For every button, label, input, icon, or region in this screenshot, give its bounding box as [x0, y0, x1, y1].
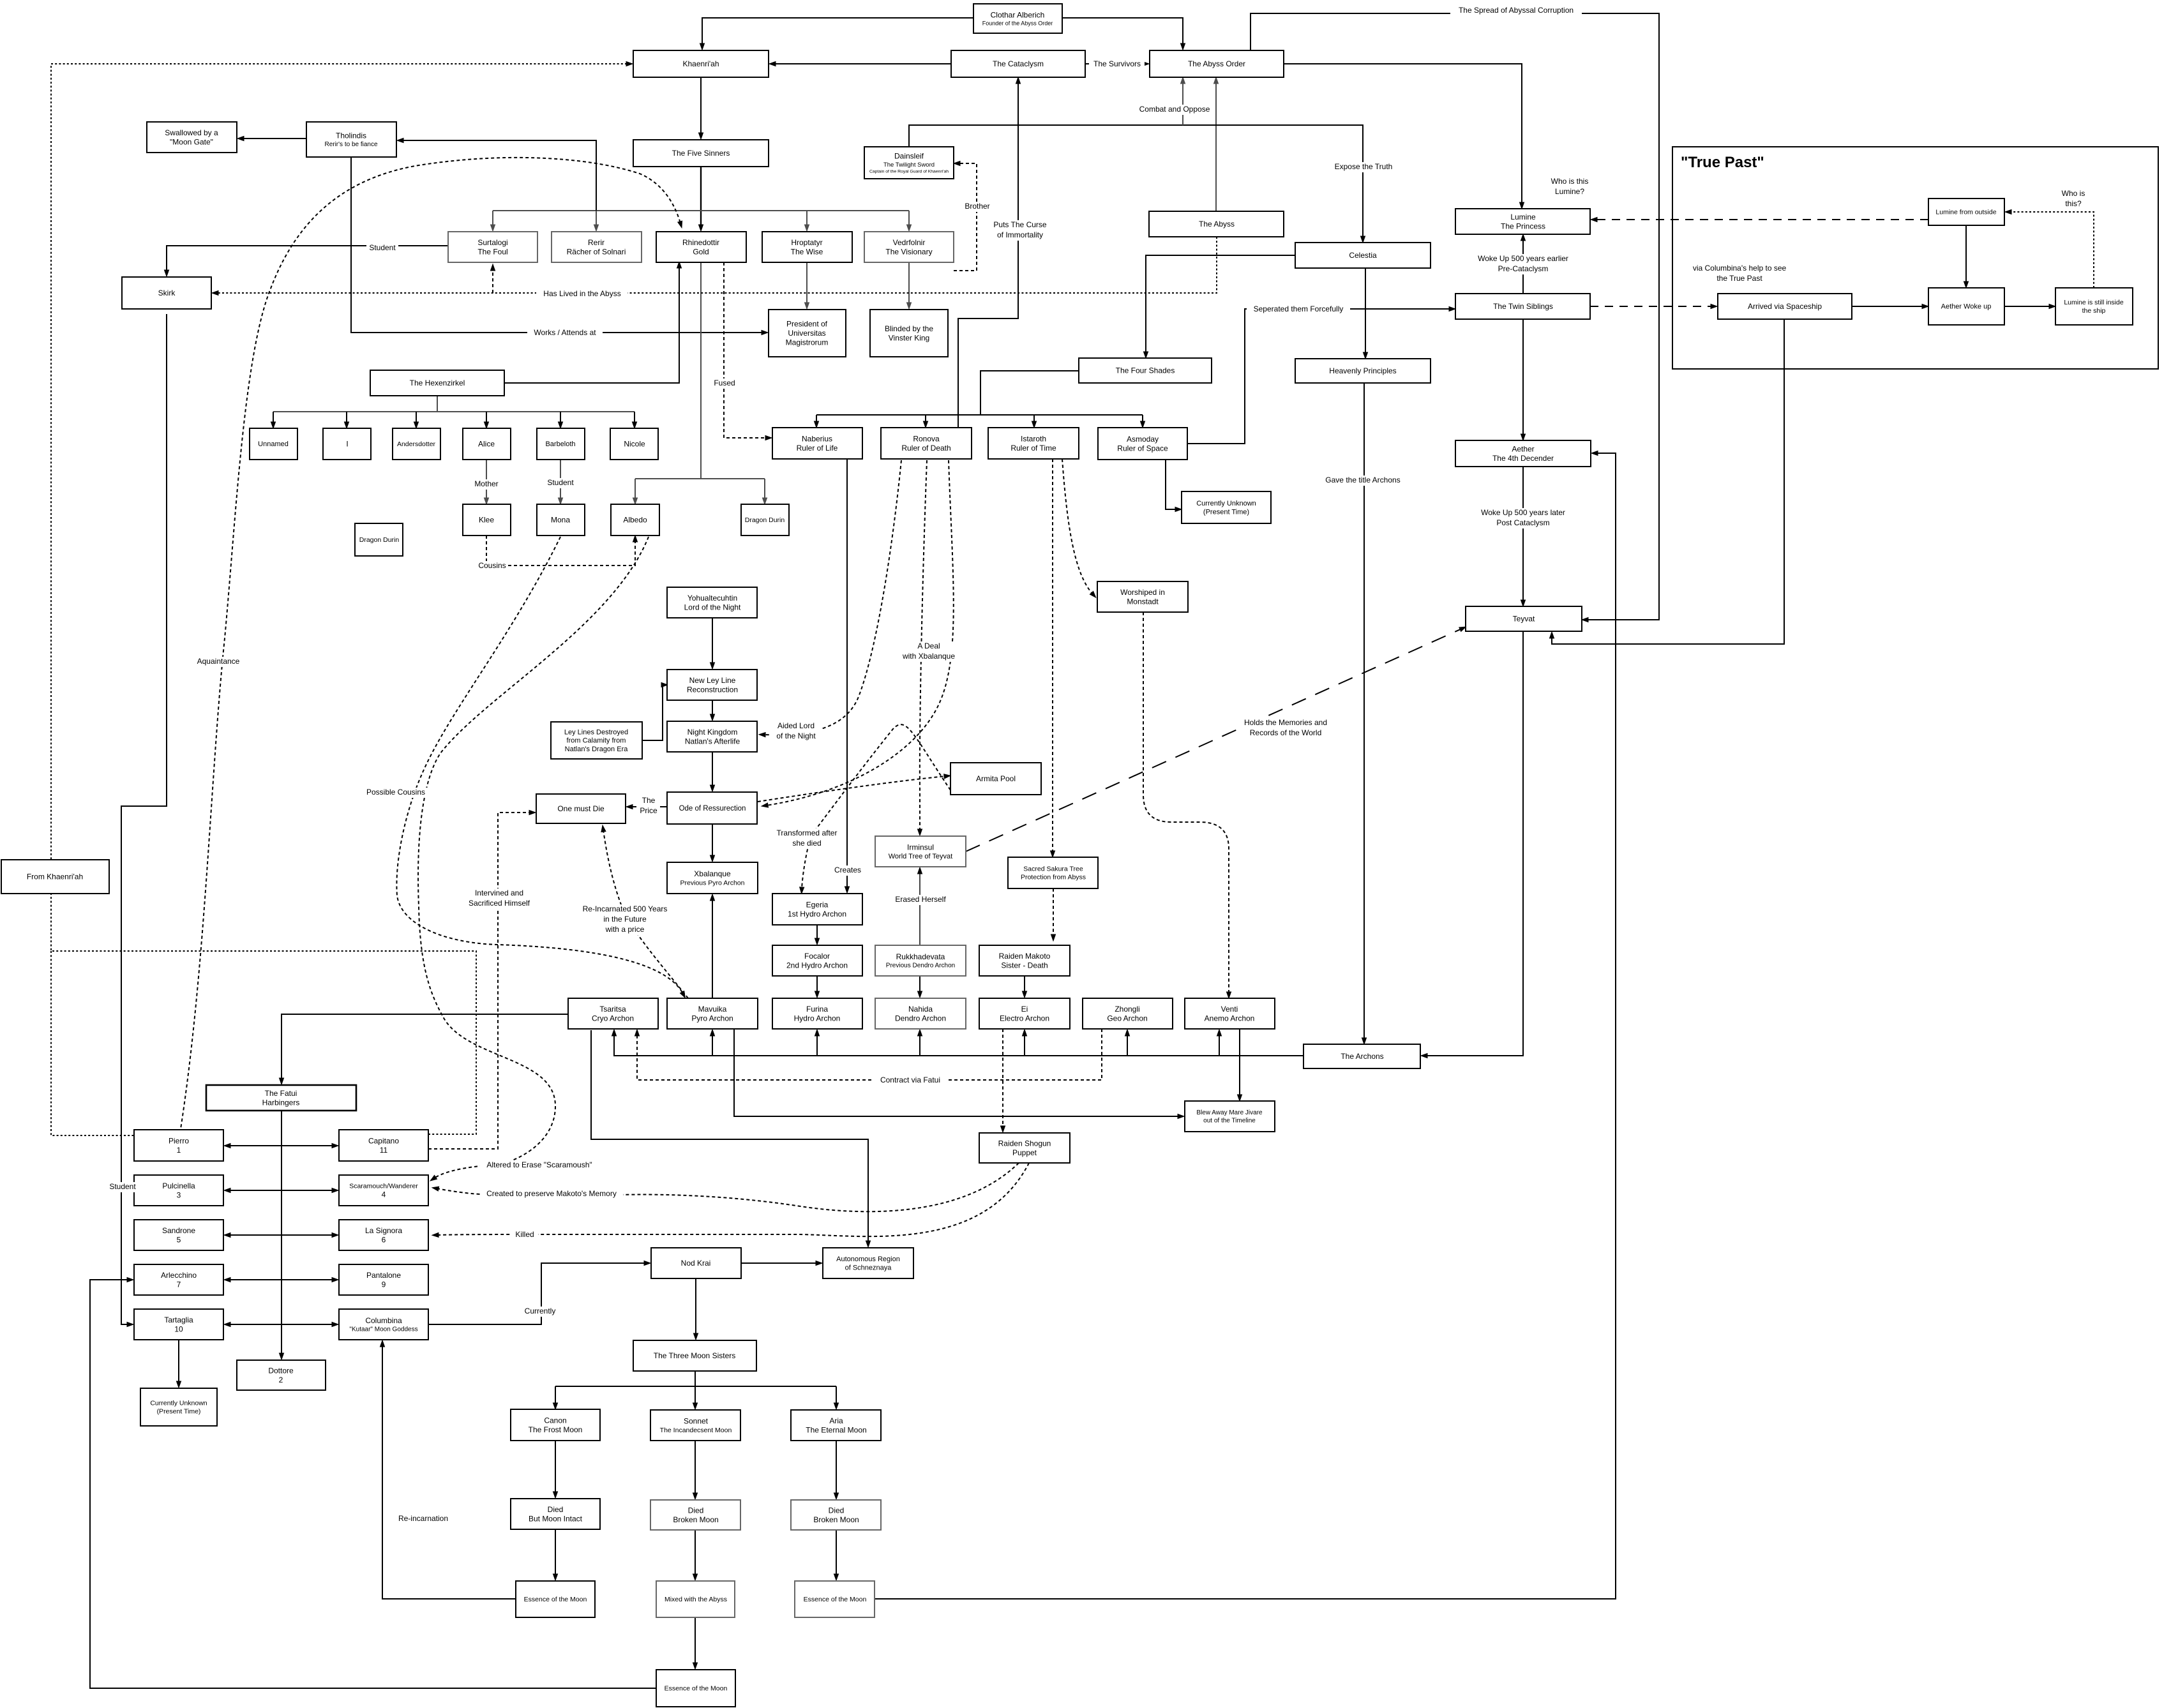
wire bar to Asmoday: [1142, 415, 1143, 423]
svg-text:The Princess: The Princess: [1501, 221, 1545, 230]
node Currently Unknown (bottom): [140, 1388, 217, 1426]
label Aquaintance: [195, 657, 243, 667]
wire dashed Mavuika Re-Incarnated to One must Die: [603, 830, 688, 998]
svg-text:Sonnet: Sonnet: [684, 1417, 709, 1426]
svg-text:of the Night: of the Night: [776, 731, 816, 740]
node Furina: [772, 998, 862, 1029]
node Currently Unknown (top): [1182, 491, 1271, 523]
node Arlecchino: [134, 1264, 223, 1295]
node Pulcinella: [134, 1175, 223, 1206]
svg-text:Lumine is still inside: Lumine is still inside: [2064, 299, 2124, 306]
label Student (Surtalogi): [366, 243, 398, 253]
svg-text:of Schneznaya: of Schneznaya: [845, 1264, 892, 1271]
svg-text:Woke Up 500 years later: Woke Up 500 years later: [1481, 508, 1565, 517]
svg-text:Barbeloth: Barbeloth: [545, 440, 575, 448]
svg-text:New Ley Line: New Ley Line: [689, 676, 736, 685]
svg-text:The Twilight Sword: The Twilight Sword: [883, 161, 935, 169]
wire double arrow y1865: [229, 1190, 334, 1191]
svg-text:Re-incarnation: Re-incarnation: [398, 1514, 448, 1523]
svg-text:Surtalogi: Surtalogi: [477, 238, 507, 247]
svg-text:Records of the World: Records of the World: [1250, 728, 1322, 737]
wire Arrived to Aether Woke up: [1852, 306, 1924, 307]
node The Cataclysm: [951, 50, 1085, 77]
wire moon bar: [555, 1386, 836, 1387]
svg-text:Focalor: Focalor: [804, 952, 830, 961]
svg-text:Mother: Mother: [474, 479, 498, 488]
node Canon: [511, 1409, 600, 1441]
label via Columbina's help: [1693, 264, 1787, 283]
wire dashed possible cousins: Mona to Mavuika: [396, 537, 683, 994]
svg-text:Has Lived in the Abyss: Has Lived in the Abyss: [543, 289, 620, 298]
node Essence of the Moon (Canon): [516, 1581, 595, 1617]
svg-text:Unnamed: Unnamed: [258, 440, 289, 448]
wire Rerir to Tholindis: [402, 140, 596, 211]
wire split to Dragon Durin: [764, 479, 765, 500]
svg-text:(Present Time): (Present Time): [157, 1408, 201, 1416]
node Died But Moon Intact: [511, 1499, 600, 1529]
node The Fatui Harbingers: [206, 1085, 356, 1111]
label Killed: [511, 1230, 538, 1240]
wire Hroptatyr to President: [806, 262, 808, 304]
svg-text:Blinded by the: Blinded by the: [885, 324, 933, 333]
node Sandrone: [134, 1220, 223, 1250]
svg-text:out of the Timeline: out of the Timeline: [1203, 1118, 1256, 1125]
label Brother: [961, 202, 993, 212]
svg-text:Holds the Memories and: Holds the Memories and: [1244, 718, 1327, 727]
wire archon bus from The Archons: [614, 1034, 1303, 1056]
svg-text:The Survivors: The Survivors: [1093, 59, 1141, 68]
svg-text:Currently Unknown: Currently Unknown: [1196, 500, 1256, 507]
node Rhinedottir: [656, 232, 746, 262]
wire dashed Altered to Erase: Albedo to Scaramouch: [418, 537, 649, 1178]
label Holds the Memories: [1240, 718, 1331, 738]
svg-text:The Fatui: The Fatui: [265, 1089, 297, 1098]
node Surtalogi: [448, 232, 537, 262]
svg-text:Nod Krai: Nod Krai: [681, 1259, 711, 1268]
svg-text:Naberius: Naberius: [802, 434, 832, 443]
svg-text:Aria: Aria: [829, 1416, 843, 1425]
svg-text:Gave the title Archons: Gave the title Archons: [1325, 476, 1400, 484]
svg-text:this?: this?: [2065, 199, 2082, 208]
wire double arrow y2075: [229, 1324, 334, 1325]
wire Yohualtecuhtin to New Ley Line: [712, 618, 713, 664]
svg-text:Andersdotter: Andersdotter: [397, 440, 436, 448]
svg-text:10: 10: [174, 1324, 183, 1333]
svg-text:Previous Pyro Archon: Previous Pyro Archon: [680, 879, 745, 887]
svg-text:Price: Price: [640, 806, 657, 815]
wire dashed Killed: Raiden Shogun to La Signora: [437, 1163, 1029, 1236]
label The Price: [636, 796, 660, 816]
svg-text:Armita Pool: Armita Pool: [976, 774, 1016, 783]
svg-text:from Calamity from: from Calamity from: [567, 737, 626, 745]
svg-text:Previous Dendro Archon: Previous Dendro Archon: [886, 963, 955, 970]
wire Mixed to Essence bottom: [695, 1617, 696, 1665]
wire double arrow y1935: [229, 1234, 334, 1236]
svg-text:Furina: Furina: [806, 1005, 828, 1014]
svg-text:The Twin Siblings: The Twin Siblings: [1493, 302, 1553, 311]
svg-text:The Frost Moon: The Frost Moon: [529, 1425, 583, 1434]
svg-text:Student: Student: [547, 478, 574, 487]
wire Tsaritsa to The Fatui Harbingers: [282, 1014, 568, 1080]
svg-text:Asmoday: Asmoday: [1127, 435, 1159, 444]
label Student (Mona): [545, 478, 576, 488]
svg-text:with a price: with a price: [605, 925, 645, 934]
node Klee: [463, 504, 511, 536]
label Who is this?: [2059, 189, 2087, 209]
wire dashed Ronova deal to Ode of Ressurection: [766, 460, 954, 805]
wire Rhinedottir to Albedo / Dragon Durin split: [635, 262, 765, 479]
node Andersdotter: [393, 428, 440, 460]
svg-text:11: 11: [380, 1146, 388, 1155]
svg-text:the ship: the ship: [2082, 307, 2106, 315]
svg-text:Possible Cousins: Possible Cousins: [366, 788, 425, 797]
node Nod Krai: [651, 1248, 741, 1278]
label Puts The Curse of Immortality: [990, 220, 1049, 241]
wire Rukkhadevata to Nahida: [919, 976, 920, 993]
svg-text:Sister - Death: Sister - Death: [1001, 961, 1048, 970]
node Hroptatyr: [762, 232, 852, 262]
wire Abyss Order Who is this Lumine: [1284, 64, 1522, 204]
node Dainsleif: [864, 147, 954, 179]
wire bar to I: [346, 412, 347, 424]
label Has Lived in the Abyss: [536, 289, 627, 299]
wire Combat and Oppose branch to Abyss Order: [1182, 82, 1183, 125]
node Ley Lines Destroyed: [551, 722, 642, 759]
svg-text:6: 6: [382, 1235, 386, 1244]
wire Aria to Died: [836, 1441, 837, 1495]
svg-text:Scaramouch/Wanderer: Scaramouch/Wanderer: [349, 1182, 418, 1190]
wire Died to Essence (Aria): [836, 1530, 837, 1576]
wire Ode to Xbalanque: [712, 824, 713, 857]
wire The Spread of Abyssal Corruption to Teyvat: [1251, 13, 1659, 620]
wire double arrow y2005: [229, 1279, 334, 1280]
node Zhongli: [1083, 998, 1173, 1029]
node Tsaritsa: [568, 998, 658, 1029]
wire Tholindis Works/Attends at President: [351, 157, 763, 333]
wire Died to Mixed with the Abyss: [695, 1530, 696, 1576]
svg-text:Arlecchino: Arlecchino: [161, 1271, 197, 1280]
svg-text:The Three Moon Sisters: The Three Moon Sisters: [654, 1351, 736, 1360]
wire Ley Lines Destroyed to New Ley Line: [642, 685, 663, 740]
wire bus to Mavuika: [712, 1034, 713, 1056]
svg-text:the True Past: the True Past: [1717, 274, 1762, 283]
svg-text:Died: Died: [548, 1505, 564, 1514]
node Scaramouch/Wanderer: [339, 1175, 428, 1206]
wire Five Sinners stem to Rhinedottir: [700, 167, 702, 227]
wire Three Moon Sisters stem: [695, 1371, 696, 1386]
svg-text:2: 2: [279, 1375, 283, 1384]
wire bar to Barbeloth: [560, 412, 561, 424]
node The Five Sinners: [633, 140, 769, 167]
node Istaroth: [988, 428, 1079, 459]
wire shades bar: [816, 414, 1143, 416]
wire dashed Sacred Sakura to Raiden Makoto: [1053, 888, 1054, 936]
wire dotted Capitano to Khaenri'ah via left margin: [51, 64, 628, 1134]
wire Tholindis to Swallowed by a Moon Gate: [242, 138, 306, 139]
svg-text:Ronova: Ronova: [913, 434, 940, 443]
svg-text:Natlan's Afterlife: Natlan's Afterlife: [685, 737, 740, 745]
wire Hexenzirkel stem: [437, 396, 438, 412]
wire Night Kingdom to Ode: [712, 752, 713, 787]
node The Four Shades: [1079, 358, 1212, 383]
svg-text:1: 1: [177, 1146, 181, 1155]
node Dragon Durin (left): [355, 523, 403, 556]
svg-text:Lumine: Lumine: [1510, 213, 1536, 221]
wire dashed Transformed: Armita to Egeria: [802, 724, 950, 889]
wire Fatui Harbingers to Dottore: [281, 1111, 282, 1355]
svg-text:Capitano: Capitano: [368, 1136, 399, 1145]
wire bar to Rerir: [596, 211, 597, 227]
svg-text:Heavenly Principles: Heavenly Principles: [1329, 366, 1396, 375]
label Re-Incarnated 500 Years: [577, 904, 673, 935]
svg-text:Night Kingdom: Night Kingdom: [687, 728, 738, 737]
label Created to preserve: [480, 1189, 623, 1199]
node Nicole: [610, 428, 658, 460]
svg-text:Vedrfolnir: Vedrfolnir: [893, 238, 926, 247]
svg-text:The Eternal Moon: The Eternal Moon: [806, 1425, 866, 1434]
wire split to Albedo: [635, 479, 636, 500]
svg-text:2nd Hydro Archon: 2nd Hydro Archon: [786, 961, 848, 970]
wire Canon to Died: [555, 1441, 556, 1494]
svg-text:Hydro Archon: Hydro Archon: [794, 1014, 841, 1023]
svg-text:La Signora: La Signora: [365, 1226, 402, 1235]
node The Abyss Order: [1150, 50, 1284, 77]
node Ode of Ressurection: [667, 792, 757, 824]
node One must Die: [536, 794, 626, 823]
svg-text:Who is this: Who is this: [1551, 177, 1589, 186]
svg-text:Anemo Archon: Anemo Archon: [1205, 1014, 1255, 1023]
wire bar to Aria: [836, 1386, 837, 1405]
node Ronova: [881, 428, 972, 459]
svg-text:Electro Archon: Electro Archon: [1000, 1014, 1049, 1023]
wire Tartaglia to Currently Unknown: [178, 1340, 179, 1383]
svg-text:Essence of the Moon: Essence of the Moon: [804, 1596, 867, 1603]
svg-text:Mixed with the Abyss: Mixed with the Abyss: [665, 1596, 727, 1603]
node Irminsul: [875, 836, 966, 867]
svg-text:Transformed after: Transformed after: [777, 828, 838, 837]
node Pantalone: [339, 1264, 428, 1295]
node The Hexenzirkel: [370, 370, 504, 396]
label Woke Up 500 years later: [1475, 508, 1571, 528]
svg-text:Xbalanque: Xbalanque: [694, 869, 731, 878]
svg-text:The Incandecsent Moon: The Incandecsent Moon: [660, 1427, 732, 1434]
svg-text:Combat and Oppose: Combat and Oppose: [1139, 105, 1210, 114]
label A Deal with Xbalanque: [899, 641, 958, 662]
wire dashed Capitano Intervined to One must Die: [428, 813, 531, 1149]
wire bus to Venti: [1219, 1034, 1220, 1056]
node Unnamed: [250, 428, 297, 460]
node Sacred Sakura Tree: [1008, 857, 1098, 888]
svg-text:Monstadt: Monstadt: [1127, 597, 1159, 606]
wire Focalor to Furina: [816, 976, 818, 993]
wire Raiden Makoto to Ei: [1024, 976, 1025, 993]
svg-text:Dainsleif: Dainsleif: [894, 152, 924, 161]
wire Naberius Creates Egeria: [846, 459, 848, 888]
wire bar to Sonnet: [695, 1386, 696, 1405]
label Fused: [712, 378, 736, 389]
svg-text:Tartaglia: Tartaglia: [164, 1315, 193, 1324]
svg-text:Died: Died: [688, 1506, 704, 1515]
label Woke Up 500 years earlier: [1471, 254, 1575, 274]
wire bar to Naberius: [816, 415, 817, 423]
wire Alice to Klee (Mother): [486, 460, 487, 500]
node Naberius: [772, 428, 862, 459]
svg-text:Broken Moon: Broken Moon: [813, 1515, 859, 1524]
svg-text:Puts The Curse: Puts The Curse: [993, 220, 1046, 229]
svg-text:Rukkhadevata: Rukkhadevata: [896, 952, 945, 961]
svg-text:Puppet: Puppet: [1012, 1148, 1037, 1157]
wire bar to Nicole: [634, 412, 635, 424]
node Raiden Shogun: [979, 1133, 1070, 1163]
svg-text:Ruler of Death: Ruler of Death: [901, 444, 950, 453]
svg-text:Student: Student: [369, 243, 396, 252]
node The Abyss: [1149, 211, 1284, 237]
svg-text:Istaroth: Istaroth: [1021, 434, 1046, 443]
svg-text:From Khaenri'ah: From Khaenri'ah: [27, 873, 83, 881]
node Worshiped in Monstadt: [1097, 581, 1188, 612]
svg-text:Rächer of Solnari: Rächer of Solnari: [567, 247, 626, 256]
node Blinded by the Vinster King: [870, 310, 948, 357]
svg-text:Ruler of Life: Ruler of Life: [797, 444, 838, 453]
wire Khaenri'ah to The Five Sinners: [700, 77, 702, 135]
svg-text:3: 3: [177, 1190, 181, 1199]
svg-text:Sacrificed Himself: Sacrificed Himself: [469, 899, 530, 908]
node Lumine is still inside the ship: [2055, 288, 2133, 325]
svg-text:Hroptatyr: Hroptatyr: [791, 238, 822, 247]
svg-text:Currently Unknown: Currently Unknown: [150, 1400, 207, 1407]
svg-text:Pierro: Pierro: [169, 1136, 189, 1145]
wire Essence of the Moon (Aria) to Aether: [875, 453, 1616, 1599]
svg-text:Mavuika: Mavuika: [698, 1005, 727, 1014]
svg-text:Albedo: Albedo: [623, 516, 647, 525]
node The Archons: [1303, 1044, 1420, 1068]
wire dashed branch to Surtalogi: [492, 269, 493, 293]
label Possible Cousins: [362, 788, 430, 798]
wire Hexenzirkel to Rhinedottir: [504, 266, 679, 383]
label The Spread of Abyssal Corruption: [1450, 6, 1582, 16]
node Aria: [791, 1410, 881, 1441]
wire Rukkhadevata Erased Herself to Irminsul: [919, 872, 920, 945]
wire Lumine from outside to Aether Woke up: [1965, 225, 1967, 283]
wire Aether Woke up to Lumine still inside: [2004, 306, 2051, 307]
node Focalor: [772, 945, 862, 976]
svg-text:Aether: Aether: [1512, 444, 1534, 453]
svg-text:Ode of Ressurection: Ode of Ressurection: [679, 805, 746, 813]
node Essence of the Moon (bottom): [656, 1670, 735, 1707]
svg-text:Aided Lord: Aided Lord: [778, 721, 815, 730]
svg-text:Sacred Sakura Tree: Sacred Sakura Tree: [1023, 865, 1083, 873]
wire Twin Siblings to Aether: [1522, 319, 1524, 436]
svg-text:Rhinedottir: Rhinedottir: [682, 238, 719, 247]
node Vedrfolnir: [864, 232, 954, 262]
wire Celestia to Heavenly Principles: [1365, 268, 1366, 354]
node Armita Pool: [950, 763, 1041, 795]
svg-text:Vinster King: Vinster King: [889, 333, 929, 342]
svg-text:Student: Student: [109, 1182, 136, 1191]
label Erased Herself: [890, 895, 950, 905]
label Who is this Lumine?: [1546, 177, 1594, 197]
svg-text:Intervined and: Intervined and: [475, 888, 523, 897]
svg-text:Woke Up 500 years earlier: Woke Up 500 years earlier: [1478, 254, 1568, 263]
svg-text:7: 7: [177, 1280, 181, 1289]
svg-text:in the Future: in the Future: [603, 915, 647, 924]
label Mother: [472, 479, 500, 490]
wire dashed Contract via Fatui Zhongli to Tsaritsa: [637, 1029, 1102, 1080]
svg-text:Magistrorum: Magistrorum: [786, 338, 829, 347]
node Capitano: [339, 1130, 428, 1161]
wire bar to Ronova: [925, 415, 926, 423]
svg-text:she died: she died: [792, 839, 821, 848]
node Died Broken Moon (Sonnet): [650, 1500, 740, 1530]
svg-text:The Abyss: The Abyss: [1199, 220, 1235, 228]
node New Ley Line Reconstruction: [667, 670, 757, 700]
label Cousins: [476, 561, 508, 571]
wire Egeria to Focalor: [816, 925, 818, 940]
wire Tsaritsa to Autonomous Region: [591, 1030, 868, 1243]
wire Columbina Currently to Nod Krai: [428, 1263, 646, 1324]
svg-text:"Moon Gate": "Moon Gate": [170, 137, 213, 146]
svg-text:The Cataclysm: The Cataclysm: [993, 59, 1044, 68]
node Lumine from outside: [1928, 199, 2004, 225]
wire bus to Furina: [816, 1034, 818, 1056]
wire dashed Istaroth to Worshiped in Monstadt: [1062, 459, 1093, 594]
svg-text:Killed: Killed: [515, 1230, 534, 1239]
svg-text:Contract via Fatui: Contract via Fatui: [880, 1075, 940, 1084]
node Autonomous Region of Schneznaya: [823, 1248, 913, 1278]
svg-text:Venti: Venti: [1221, 1005, 1238, 1014]
label Expose the Truth: [1330, 162, 1397, 172]
label Contract via Fatui: [873, 1075, 948, 1086]
node Heavenly Principles: [1295, 359, 1431, 383]
wire Ode The Price to One must Die: [631, 806, 667, 807]
svg-text:Works / Attends at: Works / Attends at: [534, 328, 596, 337]
svg-text:Swallowed by a: Swallowed by a: [165, 128, 218, 137]
svg-text:Universitas: Universitas: [788, 329, 825, 338]
wire dashed Ode to Armita Pool: [758, 776, 946, 802]
wire Four Shades feed: [980, 371, 1079, 415]
wire Twin Siblings to Lumine (Woke up earlier): [1522, 239, 1524, 294]
container True Past: [1672, 147, 2158, 369]
wire witches bar: [273, 411, 635, 412]
svg-text:with Xbalanque: with Xbalanque: [902, 652, 955, 661]
label Altered to Erase: [480, 1160, 599, 1171]
svg-text:Essence of the Moon: Essence of the Moon: [524, 1596, 587, 1603]
node La Signora: [339, 1220, 428, 1250]
svg-text:Raiden Makoto: Raiden Makoto: [999, 952, 1051, 961]
wire The Survivors: Cataclysm to Abyss Order: [1085, 63, 1145, 64]
node Essence of the Moon (Aria): [795, 1581, 875, 1617]
wire New Ley Line to Night Kingdom: [712, 700, 713, 716]
node Celestia: [1295, 243, 1431, 268]
svg-text:Canon: Canon: [544, 1416, 566, 1425]
node Clothar Alberich: [973, 4, 1062, 33]
node I: [323, 428, 371, 460]
label Combat and Oppose: [1139, 105, 1210, 115]
label Seperated them Forcefully: [1247, 304, 1350, 315]
svg-text:via Columbina's help to see: via Columbina's help to see: [1693, 264, 1787, 273]
svg-text:Klee: Klee: [479, 516, 494, 525]
svg-text:Who is: Who is: [2062, 189, 2085, 198]
wire bar to Andersdotter: [416, 412, 417, 424]
label Student (Tartaglia): [107, 1182, 139, 1192]
svg-text:Ei: Ei: [1021, 1005, 1028, 1014]
svg-text:Nicole: Nicole: [624, 440, 645, 449]
wire bus to Nahida: [919, 1034, 920, 1056]
svg-text:Cousins: Cousins: [478, 561, 506, 570]
svg-text:Egeria: Egeria: [806, 900, 829, 909]
svg-text:Erased Herself: Erased Herself: [895, 895, 946, 904]
svg-text:Natlan's Dragon Era: Natlan's Dragon Era: [565, 745, 629, 753]
